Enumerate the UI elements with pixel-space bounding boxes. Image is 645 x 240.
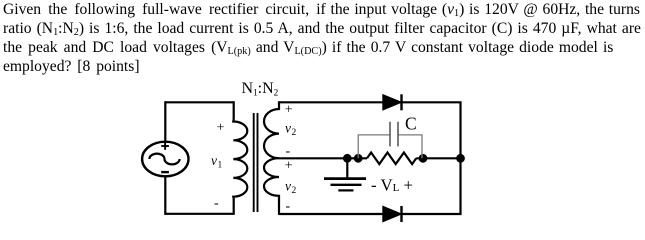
wire: D2 to right corner	[402, 213, 462, 215]
wire: center tap to resistor	[279, 157, 367, 159]
AC source plus	[161, 145, 169, 147]
capacitor C plates	[389, 122, 391, 147]
svg-text:2: 2	[292, 186, 297, 196]
svg-text:2: 2	[292, 128, 297, 138]
svg-text:v: v	[285, 121, 291, 136]
AC source sine	[149, 154, 179, 165]
transformer secondary winding (bottom half)	[264, 158, 279, 215]
junction node D	[456, 154, 465, 163]
transformer core	[253, 113, 255, 212]
svg-text:- VL +: - VL +	[371, 175, 413, 194]
problem statement text	[3, 0, 640, 19]
svg-text:-: -	[286, 199, 291, 214]
wire: resistor to right wire	[416, 157, 460, 159]
wire: top (secondary to D1)	[279, 101, 384, 103]
diode D1	[383, 95, 402, 110]
ground lead	[346, 158, 348, 177]
wire: bottom (secondary to D2)	[279, 213, 384, 215]
diode D2	[383, 206, 402, 221]
svg-text:-: -	[214, 196, 219, 211]
svg-text:v: v	[211, 153, 217, 168]
AC source V1	[142, 142, 188, 177]
AC source minus	[161, 171, 169, 173]
wire: left loop left upper	[164, 101, 166, 142]
svg-text:+: +	[285, 159, 293, 174]
svg-text:N1:N2: N1:N2	[242, 80, 279, 98]
junction node A	[343, 154, 352, 163]
wire: left loop left lower	[164, 176, 166, 215]
ground	[324, 177, 366, 180]
wire: right vertical	[459, 102, 461, 214]
transformer primary winding	[233, 101, 247, 215]
junction node B	[354, 154, 363, 163]
junction node C	[419, 154, 428, 163]
resistor RL	[367, 153, 416, 165]
capacitor branch wires	[358, 135, 390, 158]
svg-text:v: v	[285, 179, 291, 194]
svg-text:1: 1	[218, 161, 223, 171]
wire: left loop top	[165, 101, 233, 103]
svg-text:C: C	[405, 114, 417, 134]
transformer secondary winding (top half)	[264, 101, 279, 158]
svg-text:-: -	[286, 144, 291, 159]
svg-text:+: +	[285, 103, 293, 118]
wire: left loop bottom	[165, 213, 233, 215]
wire: D1 to right corner	[402, 101, 462, 103]
svg-text:+: +	[217, 121, 225, 136]
